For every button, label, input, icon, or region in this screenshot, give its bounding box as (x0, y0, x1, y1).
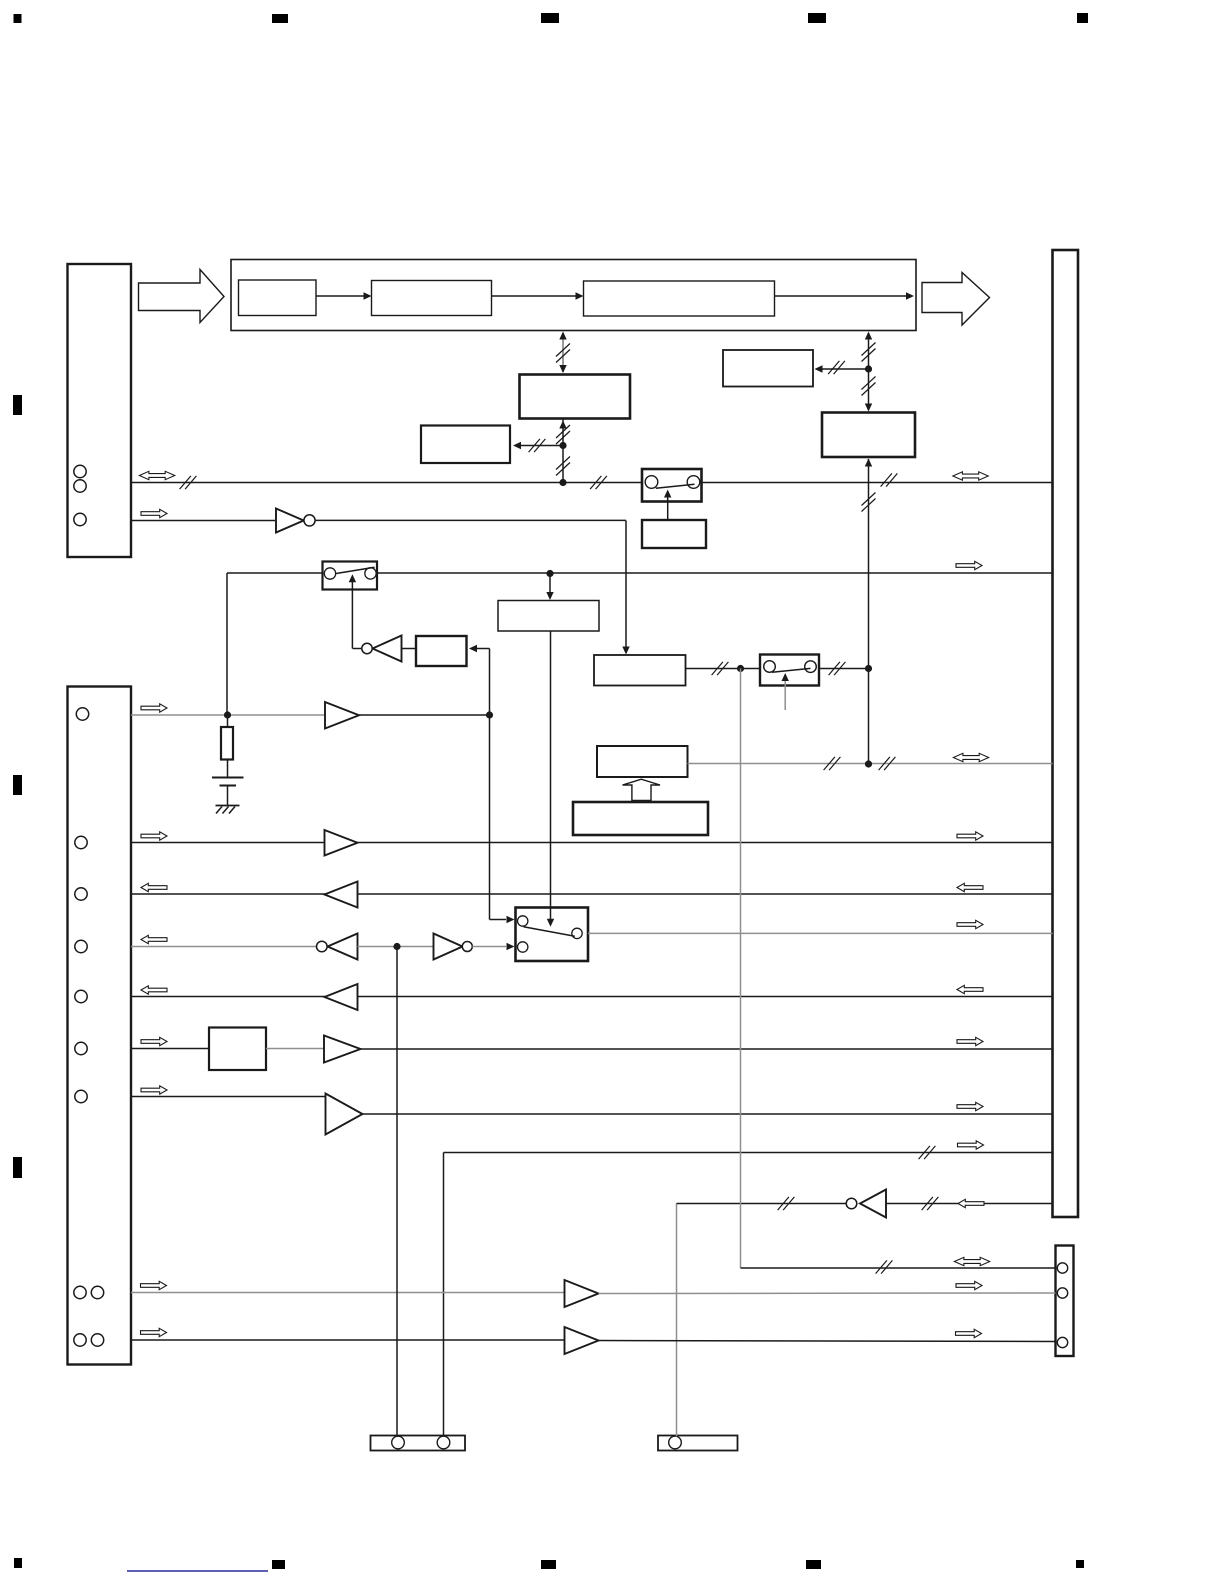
row-5 arrow (141, 704, 167, 712)
switch SW4 contact b (518, 942, 528, 952)
row-15 arrow (954, 1257, 989, 1265)
wire below U4 (up arrow into U4) (865, 459, 872, 669)
row-7 arrow left (141, 832, 167, 840)
connector CN5 (bottom strip left) (371, 1436, 466, 1451)
row-8 arrow right (957, 883, 983, 891)
wire x868 bus node F to node I (868, 669, 870, 765)
block U10 (573, 802, 708, 835)
block U6 (498, 601, 599, 632)
row-7 wire left (131, 842, 325, 844)
row-11 arrow right (957, 1037, 983, 1045)
row-11 wire U11 to A5 (266, 1048, 324, 1050)
row-7 arrow right (957, 832, 983, 840)
block U9 (597, 746, 688, 777)
wire V2 to U8 (402, 648, 417, 650)
pin CN2-6 (75, 1042, 87, 1054)
row-11 wire from CN2 (131, 1048, 209, 1050)
block U2 (421, 426, 510, 464)
row-12 arrow left (141, 1086, 167, 1094)
wire U0b to U0c (492, 292, 584, 299)
pin CN6-1 (669, 1436, 682, 1449)
switch SW4 box (516, 908, 589, 962)
wire bus x741 down (node E to row-15) (740, 669, 742, 1269)
wire U6 down to SW4 control (547, 631, 554, 927)
wire U1 down to bus node (559, 419, 566, 483)
pin CN2-10 (74, 1334, 86, 1346)
bus-width slash row-6 right (879, 757, 896, 770)
pin CN2-3 (75, 888, 87, 900)
bus-width slash row-14 right (922, 1197, 939, 1210)
row-16 wire right (599, 1292, 1056, 1295)
row-7 wire right (358, 842, 1053, 844)
wire U0c to output (775, 292, 915, 299)
row-17 wire right (599, 1341, 1056, 1342)
pin CN2-5 (75, 990, 87, 1002)
buffer A8 (565, 1327, 599, 1354)
bus-width slash row-4 left (712, 662, 729, 675)
wire corner x676 down to CN6 (676, 1204, 678, 1437)
row-3 wire left (227, 572, 323, 574)
registration mark bottom-2 (272, 1560, 285, 1569)
wire corner x227 down (226, 573, 228, 715)
bus row-1 wire left (131, 482, 643, 484)
resistor R1 (221, 715, 233, 777)
registration mark top-2 (272, 14, 288, 23)
row-12 wire from CN2 (131, 1096, 326, 1098)
node D junction on row-3 (546, 570, 553, 577)
registration mark top-3 (541, 13, 559, 23)
node H junction (486, 711, 493, 718)
bus-width slash below node C (862, 377, 876, 396)
wire U0a to U0b (316, 292, 372, 299)
row-13 wire (444, 1152, 1053, 1154)
row-16 wire left (131, 1292, 565, 1294)
node E junction (737, 665, 744, 672)
row-14 wire right (886, 1203, 1053, 1205)
row-12 arrow right (957, 1102, 983, 1110)
buffer A5 (324, 1036, 361, 1063)
switch SW1 box (642, 469, 702, 502)
block U5 (SW1 control) (642, 520, 706, 548)
block arrow into U0 (from CN1) (139, 270, 225, 323)
bus-width slash below node A (556, 457, 570, 476)
bus-width slash row-1 right (881, 473, 898, 486)
buffer A1 (325, 702, 359, 729)
block U7 (594, 655, 686, 686)
inverter V3 (points left) (317, 934, 358, 960)
buffer A3 (points left) (325, 882, 358, 908)
switch SW2 contact b (365, 568, 376, 579)
row-15 wire (741, 1267, 1056, 1269)
bus-width slash above node A (556, 425, 570, 444)
bus-width slash on U4 wire (862, 493, 876, 512)
switch SW3 contact b (805, 661, 817, 673)
node C junction (865, 365, 872, 372)
row-11 wire right (361, 1048, 1053, 1050)
pin CN1-3 (74, 513, 86, 525)
ground (216, 806, 240, 814)
row-8 arrow left (141, 883, 167, 891)
pin CN2-1 (76, 708, 88, 720)
bus wire U0-U1 (bidirectional) (559, 332, 566, 374)
inverter V4 (points right) (434, 934, 473, 960)
block U1 (520, 375, 631, 419)
switch SW3 lever (772, 668, 811, 672)
footer link underline (127, 1570, 268, 1572)
block U11 (209, 1028, 266, 1071)
bus-width slash on node A branch (529, 439, 546, 452)
row-14 arrow right (958, 1199, 984, 1207)
node B junction on bus row 1 (559, 479, 566, 486)
bus-width slash on node C branch (828, 361, 845, 374)
bus-width slash upper right bus (862, 343, 876, 362)
signal-path outer box U0 (231, 260, 916, 331)
block U0a (239, 280, 317, 316)
row-6 wire to CN3 (688, 763, 1053, 765)
row-3 wire right (377, 572, 1053, 574)
connector CN4 (right small) (1056, 1246, 1074, 1357)
capacitor C1 (212, 778, 244, 806)
pin CN1-2 (74, 480, 86, 492)
registration mark bottom-5 (1076, 1560, 1084, 1568)
node F junction on x868 bus (865, 665, 872, 672)
pin CN5-1 (392, 1436, 405, 1449)
row-2 wire from CN1 (131, 520, 275, 522)
buffer A7 (565, 1280, 599, 1307)
node I junction (865, 760, 872, 767)
block arrow out of U0 (to CN3) (922, 273, 990, 326)
row-10 arrow left (141, 986, 167, 994)
row-2 arrow (141, 509, 167, 517)
pin CN2-7 (75, 1090, 87, 1102)
row-16 arrow left (141, 1281, 167, 1289)
block U4 (822, 413, 915, 458)
bus-width slash row-1 mid (590, 476, 607, 489)
pin CN2-2 (75, 836, 87, 848)
registration mark left-2 (13, 775, 22, 795)
registration mark bottom-1 (14, 1558, 22, 1568)
pin CN2-8 (74, 1286, 86, 1298)
pin CN4-1 (1057, 1263, 1067, 1273)
switch SW1 control arrow (664, 490, 671, 521)
bus row-1 arrow left (139, 471, 174, 479)
row-16 arrow right (956, 1281, 982, 1289)
row-11 arrow left (141, 1037, 167, 1045)
pin CN2-4 (75, 940, 87, 952)
block U3 (723, 350, 813, 387)
block arrow U10 to U9 (623, 779, 661, 800)
bus-width slash row-1 left (180, 476, 197, 489)
connector CN3 (right tall) (1053, 250, 1079, 1217)
row-4 wire SW3 to bus (819, 668, 869, 670)
bus-width slash row-15 (876, 1260, 893, 1273)
connector CN2 (left bottom) (68, 687, 132, 1365)
switch SW3 control arrow (782, 673, 789, 710)
registration mark top-5 (1077, 13, 1088, 23)
switch SW4 contact a (518, 916, 528, 926)
bus-width slash row-13 (919, 1146, 936, 1159)
wire node A to U2 (513, 442, 562, 449)
node G junction (224, 711, 231, 718)
inverter V1 (276, 509, 315, 533)
connector CN1 (left top) (68, 264, 132, 557)
row-8 wire (131, 893, 1053, 895)
switch SW1 lever (656, 484, 695, 488)
row-3 arrow right (956, 561, 982, 569)
switch SW2 box (323, 562, 378, 590)
wire corner down to U7 (622, 521, 629, 655)
block U0b (372, 281, 492, 316)
row-14 wire left (677, 1203, 847, 1205)
row-12 wire right (363, 1113, 1053, 1115)
riser x489 wire (489, 649, 491, 716)
row-5 wire from CN2 (131, 714, 325, 716)
row-9 wire V3 to node (358, 946, 434, 948)
registration mark bottom-3 (541, 1560, 556, 1569)
registration mark top-1 (14, 14, 22, 23)
row-13 arrow right (958, 1141, 984, 1149)
pin CN5-2 (437, 1436, 450, 1449)
row-6 arrow (953, 753, 988, 761)
switch SW2 control arrow (349, 574, 356, 648)
wire V4 to SW4 (472, 943, 514, 950)
wire corner x443 down to CN5 (443, 1153, 445, 1437)
block U8 (416, 636, 467, 666)
inverter V2 (points left) (362, 636, 402, 662)
wire bubble to SW2 riser (353, 648, 362, 650)
row-9 arrow right (957, 920, 983, 928)
row-10 wire (131, 996, 1053, 998)
node A junction (559, 442, 566, 449)
switch SW3 box (760, 655, 819, 686)
buffer A6 (large) (326, 1094, 363, 1135)
bus-width slash row-6 left (824, 757, 841, 770)
pin CN2-9 (91, 1286, 103, 1298)
wire U8 feed from riser x489 (469, 645, 490, 652)
bus wire U0 down (right) (865, 332, 872, 412)
wire riser x489 to SW4 in-a (490, 715, 515, 923)
pin CN4-2 (1057, 1288, 1067, 1298)
registration mark left-1 (13, 395, 22, 415)
row-9 arrow left (141, 935, 167, 943)
row-2 wire to corner (315, 519, 626, 521)
switch SW1 contact b (687, 476, 700, 489)
bus row-1 wire right (702, 482, 1053, 484)
wire node D down to U6 (546, 574, 553, 601)
row-4 wire U7 to SW3 (686, 668, 761, 670)
buffer A4 (points left) (325, 984, 358, 1010)
bus-width slash row-14 left (778, 1197, 795, 1210)
wire node C to U3 (815, 365, 868, 372)
switch SW4 lever (524, 927, 575, 936)
buffer A2 (325, 830, 358, 856)
row-9 wire from CN2 (131, 946, 317, 948)
inverter V5 (points left) (846, 1190, 886, 1218)
bus-width slash on U0-U1 wire (556, 344, 570, 363)
switch SW2 contact a (324, 568, 335, 579)
node J junction (393, 943, 400, 950)
bus-width slash row-4 right (829, 662, 846, 675)
row-17 arrow left (141, 1328, 167, 1336)
connector CN6 (bottom strip mid) (658, 1436, 738, 1451)
pin CN2-11 (91, 1334, 103, 1346)
pin CN4-3 (1057, 1337, 1067, 1347)
registration mark top-4 (808, 13, 826, 23)
row-17 wire left (131, 1339, 565, 1341)
registration mark left-3 (13, 1157, 22, 1178)
switch SW1 contact a (645, 476, 658, 489)
row-17 arrow right (956, 1329, 982, 1337)
switch SW2 lever (336, 567, 374, 573)
row-5 wire A1 output (359, 714, 490, 716)
row-10 arrow right (957, 985, 983, 993)
bus row-1 arrow right (953, 472, 988, 480)
switch SW3 contact a (764, 661, 776, 673)
wire node J down to CN5 pin-1 (396, 947, 398, 1437)
registration mark bottom-4 (806, 1560, 821, 1569)
block U0c (584, 281, 775, 316)
row-9 wire SW4 output (588, 932, 1053, 934)
switch SW4 contact c (572, 928, 582, 938)
pin CN1-1 (74, 465, 86, 477)
